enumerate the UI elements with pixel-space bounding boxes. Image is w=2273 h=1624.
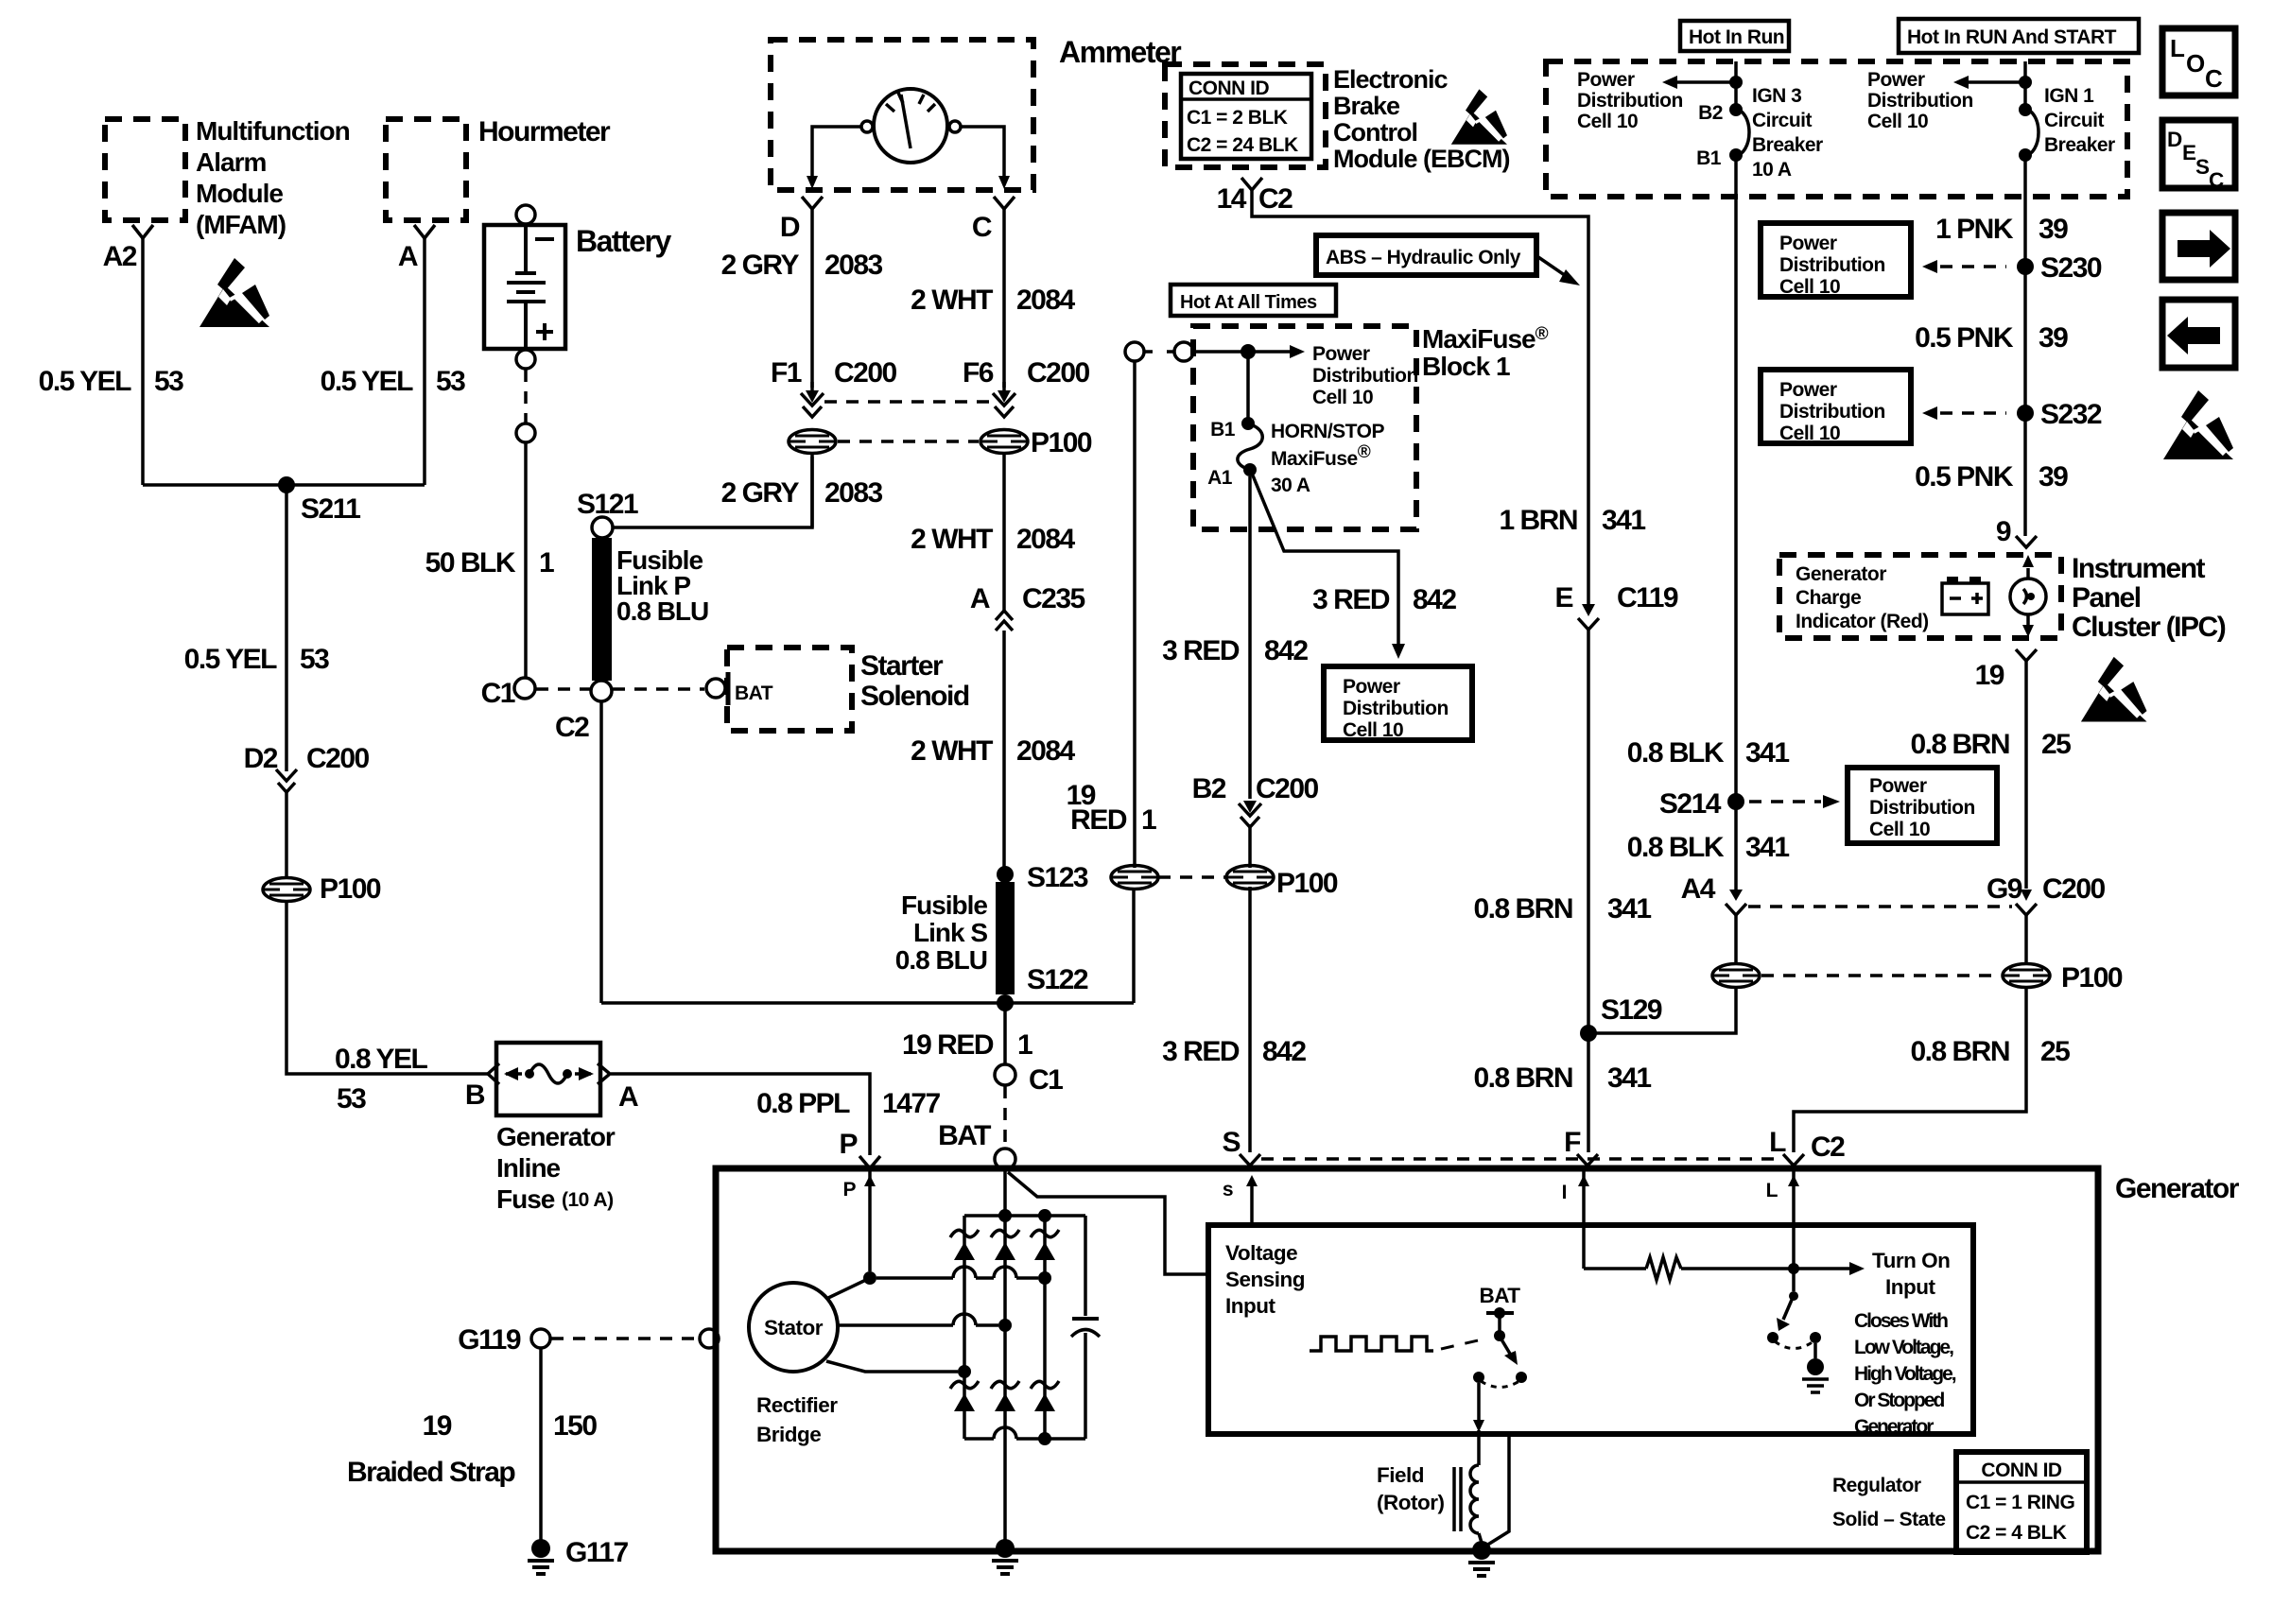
svg-text:14: 14: [1217, 183, 1247, 215]
ground rectifier: [992, 1539, 1018, 1574]
svg-text:Cell 10: Cell 10: [1779, 423, 1840, 444]
fusible link S: [895, 882, 1015, 994]
svg-text:Sensing: Sensing: [1225, 1268, 1305, 1291]
generator pin L C2: [1769, 1127, 1845, 1166]
circuit breaker dashed box: [1546, 61, 2127, 197]
grommet P100 (3RED wire): [1226, 866, 1338, 900]
resistor line F to turn-on: [1584, 1249, 1950, 1299]
svg-text:C1 = 2 BLK: C1 = 2 BLK: [1187, 107, 1288, 129]
svg-text:A: A: [618, 1081, 638, 1113]
rectifier bridge label: [756, 1393, 838, 1446]
svg-text:341: 341: [1602, 505, 1645, 536]
splice S129: [1580, 994, 1662, 1042]
wire E down to F: [1587, 630, 1590, 1152]
bulb arrows: [2022, 555, 2034, 637]
label 2 GRY 2083: [721, 250, 883, 281]
svg-text:IGN 1: IGN 1: [2044, 85, 2094, 107]
svg-text:RED: RED: [1070, 804, 1127, 836]
EBCM box: [1165, 64, 1509, 173]
wire G9 to grommet: [2024, 915, 2028, 963]
svg-text:S121: S121: [577, 489, 638, 520]
svg-text:2084: 2084: [1016, 735, 1076, 767]
svg-text:0.8 BRN: 0.8 BRN: [1910, 1036, 2009, 1067]
svg-text:Control: Control: [1333, 118, 1417, 147]
svg-text:S: S: [1222, 1127, 1240, 1158]
svg-text:C: C: [972, 212, 992, 243]
connector F6 C200: [963, 357, 1090, 417]
grommet P100 (WHT wire): [980, 427, 1092, 458]
label 19 RED 1 (lower): [902, 1029, 1032, 1061]
svg-text:1 BRN: 1 BRN: [1499, 505, 1577, 536]
label 19 150 braided strap: [347, 1410, 597, 1488]
svg-text:1 PNK: 1 PNK: [1935, 214, 2014, 245]
svg-text:C: C: [2205, 64, 2223, 93]
svg-text:53: 53: [337, 1083, 366, 1114]
label 0.5 YEL 53 (A wire): [321, 366, 466, 397]
dashed connector line A4 G9: [1748, 905, 2012, 908]
dashed P100 pair right: [1761, 974, 2001, 977]
svg-text:2083: 2083: [824, 250, 883, 281]
closes with text: [1854, 1310, 1956, 1438]
svg-text:Stator: Stator: [764, 1316, 824, 1339]
wire A C235 to S123: [1002, 631, 1006, 868]
field rotor coil: [1377, 1463, 1479, 1533]
pin P inside arrow: [868, 1171, 872, 1271]
svg-text:Multifunction: Multifunction: [196, 116, 350, 146]
svg-text:BAT: BAT: [938, 1120, 991, 1151]
left arrow box: [2162, 300, 2235, 368]
splice S211: [278, 476, 360, 525]
ammeter gauge: [861, 89, 961, 163]
svg-text:0.8 BRN: 0.8 BRN: [1473, 893, 1572, 924]
wire from A down: [423, 238, 426, 485]
wire joining A2 and A: [143, 483, 425, 487]
svg-text:39: 39: [2039, 461, 2068, 492]
label 2 WHT 2084 mid: [911, 524, 1075, 555]
diode lower col2: [991, 1381, 1019, 1411]
svg-text:Module: Module: [196, 179, 283, 208]
power distribution box S214: [1848, 768, 1997, 843]
svg-text:Distribution: Distribution: [1779, 401, 1885, 423]
multifunction alarm module MFAM box: [105, 116, 350, 239]
svg-text:C200: C200: [1027, 357, 1090, 389]
BAT sense wire to regulator: [1008, 1172, 1208, 1274]
stator phase 2: [838, 1314, 1012, 1332]
wire S211 down: [285, 485, 288, 771]
ammeter arrow D: [807, 176, 818, 189]
capacitor branch: [1071, 1216, 1100, 1439]
generator pin S: [1222, 1127, 1260, 1166]
wire IPC down: [2024, 661, 2028, 889]
hourmeter box: [386, 116, 611, 220]
svg-text:(MFAM): (MFAM): [196, 210, 286, 239]
svg-text:842: 842: [1413, 584, 1456, 615]
turn-on switch: [1767, 1269, 1829, 1392]
regulator box: [1208, 1225, 1973, 1434]
svg-text:Battery: Battery: [576, 224, 671, 258]
svg-text:(Rotor): (Rotor): [1377, 1491, 1444, 1514]
connector C1: [481, 678, 535, 709]
IGN1 node: [2019, 76, 2032, 89]
wire C2 down to S122 row: [599, 701, 603, 1003]
svg-text:0.5 YEL: 0.5 YEL: [39, 366, 132, 397]
svg-text:HORN/STOP: HORN/STOP: [1271, 421, 1384, 442]
svg-text:CONN ID: CONN ID: [1981, 1460, 2062, 1481]
svg-text:Power: Power: [1869, 775, 1927, 797]
label 0.5 YEL 53 (A2 wire): [39, 366, 184, 397]
svg-text:C200: C200: [306, 743, 370, 774]
IGN3 feed wire: [1734, 61, 1738, 110]
svg-text:19: 19: [1975, 660, 2004, 691]
svg-text:Or Stopped: Or Stopped: [1854, 1390, 1945, 1411]
svg-text:G9: G9: [1987, 873, 2022, 905]
IGN1 feed wire: [2023, 61, 2027, 110]
connector A4: [1681, 802, 1746, 915]
svg-text:Cell 10: Cell 10: [1312, 387, 1373, 408]
svg-text:P100: P100: [2061, 962, 2123, 993]
svg-text:Brake: Brake: [1333, 92, 1400, 120]
connector F1 C200: [771, 357, 897, 417]
dashed arrow S214: [1749, 795, 1840, 808]
svg-text:1: 1: [1141, 804, 1156, 836]
LOC box: [2162, 28, 2235, 95]
svg-text:Electronic: Electronic: [1333, 65, 1449, 94]
wire grommet to S pin: [1248, 887, 1252, 1152]
wire corner up to grommet: [1132, 887, 1136, 1003]
svg-text:25: 25: [2041, 729, 2071, 760]
svg-text:2084: 2084: [1016, 285, 1076, 316]
IGN3 node: [1729, 76, 1743, 89]
generator pin F: [1564, 1127, 1598, 1166]
svg-text:Module (EBCM): Module (EBCM): [1333, 145, 1509, 173]
field coil to ground: [1479, 1533, 1482, 1543]
arrow up inside P: [864, 1175, 876, 1186]
ABS hydraulic only box: [1316, 235, 1580, 285]
svg-text:Cell 10: Cell 10: [1867, 111, 1928, 132]
svg-text:C2: C2: [1258, 183, 1293, 215]
splice S123: [997, 862, 1088, 893]
svg-text:(10 A): (10 A): [562, 1189, 614, 1211]
battery dashed lead: [524, 370, 528, 423]
svg-text:P100: P100: [320, 873, 381, 905]
svg-text:L: L: [1769, 1127, 1786, 1158]
arrow to power distribution (IGN1): [1867, 69, 2025, 132]
svg-text:A1: A1: [1207, 467, 1233, 489]
bridge column 3: [1043, 1216, 1047, 1439]
svg-text:19: 19: [423, 1410, 452, 1442]
svg-text:Starter: Starter: [860, 650, 944, 682]
label 3 RED 842 (branch): [1312, 584, 1456, 615]
svg-text:30 A: 30 A: [1271, 475, 1310, 496]
wire to fuse B1: [1246, 352, 1250, 423]
svg-text:C2 = 4 BLK: C2 = 4 BLK: [1966, 1522, 2067, 1544]
svg-text:Link S: Link S: [913, 918, 987, 947]
label 1 PNK 39: [1935, 214, 2068, 245]
wire grommet down to S121: [810, 454, 814, 527]
hot in run label: [1680, 21, 1789, 51]
label 3 RED 842 (S wire lower): [1162, 1036, 1306, 1067]
svg-text:IGN 3: IGN 3: [1752, 85, 1801, 107]
label 0.8 BRN 25 (lower): [1910, 1036, 2070, 1067]
svg-text:C1: C1: [481, 678, 515, 709]
svg-text:G119: G119: [458, 1324, 521, 1356]
svg-text:25: 25: [2040, 1036, 2070, 1067]
main BAT vertical: [1003, 1169, 1007, 1540]
stator phase 1: [828, 1267, 1051, 1298]
svg-text:2 WHT: 2 WHT: [911, 524, 993, 555]
label 0.8 BLK 341 (upper): [1627, 737, 1790, 769]
svg-text:Cell 10: Cell 10: [1779, 276, 1840, 298]
maxifuse HORN/STOP 30A: [1207, 417, 1384, 496]
svg-text:A4: A4: [1681, 873, 1716, 905]
svg-text:D: D: [780, 212, 800, 243]
svg-text:Distribution: Distribution: [1343, 698, 1449, 719]
svg-text:1: 1: [539, 547, 554, 579]
svg-text:Input: Input: [1885, 1275, 1935, 1299]
label 50 BLK 1: [425, 547, 554, 579]
svg-text:A2: A2: [103, 241, 137, 272]
svg-text:A: A: [398, 241, 418, 272]
fusible link P: [592, 538, 708, 681]
ammeter arrow C: [998, 176, 1010, 189]
label 0.8 BRN 341 (below S129): [1473, 1063, 1651, 1094]
svg-text:Solenoid: Solenoid: [860, 681, 969, 712]
connector B2 C200: [1192, 773, 1319, 827]
field feed wire: [1473, 1383, 1484, 1465]
wire into maxifuse: [1194, 350, 1248, 354]
svg-text:0.8 BLU: 0.8 BLU: [616, 596, 708, 626]
diode upper col3: [1031, 1230, 1059, 1260]
svg-text:Circuit: Circuit: [2044, 110, 2105, 131]
battery: [484, 205, 671, 369]
svg-text:MaxiFuse®: MaxiFuse®: [1422, 324, 1549, 354]
svg-text:0.5 YEL: 0.5 YEL: [184, 644, 278, 675]
splice S232: [2017, 399, 2102, 430]
label 2 GRY 2083 lower: [721, 477, 883, 509]
generator inline fuse box: [465, 1043, 638, 1214]
EBCM pin 14 C2: [1217, 178, 1293, 215]
svg-text:Generator: Generator: [2115, 1173, 2240, 1204]
generator pin P: [839, 1129, 880, 1168]
charge indicator battery icon: [1942, 577, 1988, 614]
svg-text:53: 53: [436, 366, 465, 397]
dashed P100 pair center: [1158, 875, 1226, 879]
svg-text:2 WHT: 2 WHT: [911, 285, 993, 316]
svg-text:Distribution: Distribution: [1577, 90, 1683, 112]
label 2 WHT 2084 lower: [911, 735, 1075, 767]
bridge column 1: [963, 1216, 966, 1439]
svg-text:341: 341: [1745, 832, 1789, 863]
svg-text:2 WHT: 2 WHT: [911, 735, 993, 767]
pin I inside arrow: [1562, 1171, 1589, 1269]
svg-text:C200: C200: [1256, 773, 1319, 804]
svg-text:Alarm: Alarm: [196, 147, 266, 177]
svg-text:C1: C1: [1029, 1064, 1063, 1096]
grommet P100 (left): [263, 873, 381, 905]
svg-text:10 A: 10 A: [1752, 159, 1792, 181]
svg-text:P100: P100: [1276, 868, 1338, 899]
svg-text:2 GRY: 2 GRY: [721, 250, 800, 281]
svg-text:Breaker: Breaker: [2044, 134, 2115, 156]
svg-text:G117: G117: [565, 1537, 629, 1568]
svg-text:E: E: [2182, 141, 2196, 164]
svg-text:Field: Field: [1377, 1463, 1424, 1487]
instrument panel cluster box: [1779, 553, 2226, 643]
svg-text:B: B: [465, 1080, 485, 1111]
field return line: [1486, 1434, 1509, 1546]
label 0.5 PNK 39 (lower): [1915, 461, 2068, 492]
diode upper col1: [950, 1230, 979, 1260]
svg-text:Circuit: Circuit: [1752, 110, 1813, 131]
stator circle: [749, 1283, 838, 1372]
label 1 BRN 341: [1499, 505, 1645, 536]
DESC box: [2162, 120, 2235, 192]
svg-text:Closes With: Closes With: [1854, 1310, 1948, 1332]
turn-on junction: [1788, 1263, 1799, 1274]
splice S122: [997, 964, 1088, 1011]
svg-text:3 RED: 3 RED: [1162, 1036, 1240, 1067]
svg-text:S211: S211: [301, 493, 360, 525]
label 3 RED 842 (S wire upper): [1162, 635, 1308, 666]
connector E C119: [1554, 582, 1677, 630]
IPC pin 9: [1996, 516, 2037, 547]
svg-text:0.8 BLK: 0.8 BLK: [1627, 737, 1725, 769]
svg-text:Generator: Generator: [496, 1122, 616, 1151]
wire IGN3 breaker down: [1734, 155, 1738, 802]
svg-text:I: I: [1562, 1182, 1567, 1203]
svg-text:BAT: BAT: [1479, 1284, 1520, 1307]
power distribution cell 10 box (3 RED): [1324, 666, 1472, 741]
svg-text:Power: Power: [1867, 69, 1925, 91]
wire IGN1 breaker down to IPC: [2023, 155, 2027, 536]
splice S230: [2017, 252, 2102, 284]
stator phase 3: [826, 1361, 971, 1378]
svg-text:0.5 YEL: 0.5 YEL: [321, 366, 414, 397]
svg-text:Power: Power: [1577, 69, 1635, 91]
dashed C1 to BAT: [1003, 1086, 1007, 1148]
svg-text:C2: C2: [1811, 1132, 1845, 1163]
IPC pin 19: [1975, 649, 2037, 691]
grommet P100 (GRY wire): [789, 430, 836, 454]
generator BAT ring: [938, 1120, 1015, 1169]
pin D: [780, 197, 823, 243]
svg-text:150: 150: [553, 1410, 597, 1442]
svg-text:0.8 BLK: 0.8 BLK: [1627, 832, 1725, 863]
svg-text:Solid – State: Solid – State: [1832, 1509, 1946, 1530]
svg-text:s: s: [1223, 1179, 1233, 1201]
wire A1 down to B2: [1248, 476, 1252, 799]
wire from A2 down: [141, 238, 145, 485]
grommet P100 (G9 wire): [2003, 962, 2123, 993]
hot in run and start label: [1899, 19, 2139, 53]
svg-text:Rectifier: Rectifier: [756, 1393, 838, 1417]
svg-text:Cell 10: Cell 10: [1343, 719, 1403, 741]
svg-text:19 RED: 19 RED: [902, 1029, 994, 1061]
svg-text:Turn On: Turn On: [1872, 1249, 1950, 1272]
right arrow box: [2162, 213, 2235, 280]
ESD symbol IPC: [2081, 657, 2147, 722]
bus junction dots: [998, 1209, 1051, 1222]
label 0.8 YEL 53: [335, 1044, 428, 1114]
ESD symbol near MFAM: [200, 258, 269, 327]
svg-text:0.8 BRN: 0.8 BRN: [1473, 1063, 1572, 1094]
connector C1 generator: [995, 1064, 1063, 1096]
svg-text:C200: C200: [2042, 873, 2106, 905]
ESD symbol right column: [2163, 390, 2233, 459]
svg-text:Distribution: Distribution: [1312, 365, 1418, 387]
power distribution box S232: [1761, 370, 1911, 444]
svg-text:341: 341: [1745, 737, 1789, 769]
svg-text:C1 = 1 RING: C1 = 1 RING: [1966, 1492, 2074, 1513]
svg-text:Inline: Inline: [496, 1153, 561, 1183]
svg-text:2 GRY: 2 GRY: [721, 477, 800, 509]
svg-text:3 RED: 3 RED: [1162, 635, 1240, 666]
svg-text:Cluster (IPC): Cluster (IPC): [2072, 612, 2226, 643]
svg-text:39: 39: [2039, 214, 2068, 245]
label 0.5 YEL 53 (S211 wire): [184, 644, 330, 675]
svg-text:Instrument: Instrument: [2072, 553, 2206, 584]
circle at generator case: [700, 1329, 719, 1348]
hourmeter pin A: [398, 225, 435, 272]
grommet P100 (A4 wire): [1712, 964, 1760, 988]
svg-text:0.5 PNK: 0.5 PNK: [1915, 322, 2014, 354]
dashed connector line C200: [824, 400, 989, 404]
generator box: [716, 1168, 2240, 1551]
horizontal wire C2 to 19RED corner: [601, 1001, 1134, 1005]
svg-text:Distribution: Distribution: [1867, 90, 1973, 112]
maxifuse block box: [1193, 324, 1549, 529]
braided strap wire: [539, 1349, 543, 1540]
svg-text:C2 = 24 BLK: C2 = 24 BLK: [1187, 134, 1298, 156]
label 0.8 BLK 341 (lower): [1627, 832, 1790, 863]
wire battery to C1: [524, 443, 528, 677]
diode lower col1: [950, 1381, 979, 1411]
svg-text:Power: Power: [1343, 676, 1400, 698]
svg-text:C200: C200: [834, 357, 897, 389]
splice S121: [577, 489, 638, 538]
label 0.8 PPL 1477: [756, 1088, 940, 1119]
svg-text:S: S: [2195, 155, 2210, 179]
svg-text:Generator: Generator: [1796, 563, 1886, 585]
svg-text:Panel: Panel: [2072, 582, 2141, 613]
svg-text:C235: C235: [1022, 583, 1085, 614]
svg-text:ABS – Hydraulic Only: ABS – Hydraulic Only: [1326, 247, 1521, 268]
svg-text:B1: B1: [1696, 147, 1722, 169]
label 0.5 PNK 39 (upper): [1915, 322, 2068, 354]
svg-text:0.8 PPL: 0.8 PPL: [756, 1088, 850, 1119]
label 19 RED 1 (upper): [1067, 780, 1156, 836]
svg-text:F6: F6: [963, 357, 994, 389]
charge indicator bulb: [2010, 579, 2046, 614]
ring terminal left: [1125, 342, 1153, 361]
svg-text:C: C: [2209, 168, 2224, 192]
svg-text:S230: S230: [2040, 252, 2102, 284]
pin S inside arrow: [1223, 1175, 1258, 1226]
dashed C1 to C2: [536, 687, 590, 691]
svg-text:2084: 2084: [1016, 524, 1076, 555]
starter solenoid: [706, 648, 969, 731]
diode upper col2: [991, 1230, 1019, 1260]
svg-text:S232: S232: [2040, 399, 2102, 430]
generator CONN ID table: [1956, 1452, 2087, 1552]
svg-text:Hot In Run: Hot In Run: [1689, 26, 1784, 48]
MFAM pin A2: [103, 225, 153, 272]
svg-text:39: 39: [2039, 322, 2068, 354]
ground G117: [528, 1537, 629, 1574]
svg-text:Regulator: Regulator: [1832, 1475, 1921, 1496]
svg-text:F1: F1: [771, 357, 802, 389]
svg-text:Bridge: Bridge: [756, 1423, 821, 1446]
